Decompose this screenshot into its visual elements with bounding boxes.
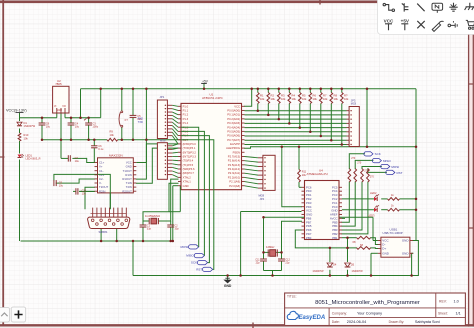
svg-text:270: 270 — [351, 157, 356, 160]
svg-text:P2.7(A15): P2.7(A15) — [228, 155, 240, 159]
svg-text:P2.2(A10): P2.2(A10) — [228, 175, 240, 179]
svg-text:GND: GND — [224, 284, 232, 288]
svg-text:EA/VPP: EA/VPP — [230, 142, 240, 146]
svg-text:10k: 10k — [302, 97, 307, 101]
svg-text:MISO: MISO — [186, 254, 194, 258]
svg-text:R2: R2 — [271, 94, 275, 98]
svg-text:P0.2(AD2): P0.2(AD2) — [227, 117, 240, 121]
svg-text:GND: GND — [183, 184, 189, 188]
svg-text:0.1u: 0.1u — [98, 147, 104, 151]
svg-text:LED3: LED3 — [368, 213, 375, 217]
svg-text:ALE/PROG: ALE/PROG — [226, 146, 240, 150]
svg-text:REV:: REV: — [439, 299, 447, 303]
svg-text:10k: 10k — [271, 97, 276, 101]
svg-text:P2.0(A8): P2.0(A8) — [229, 184, 240, 188]
svg-text:10u: 10u — [59, 185, 64, 188]
svg-text:XTAL1: XTAL1 — [183, 180, 192, 184]
svg-text:RST: RST — [397, 171, 403, 175]
svg-text:10k: 10k — [281, 97, 286, 101]
svg-text:P2.5(A13): P2.5(A13) — [228, 163, 240, 167]
svg-text:1N4007W: 1N4007W — [312, 270, 324, 273]
svg-text:D4: D4 — [333, 262, 337, 266]
svg-text:K?: K? — [125, 118, 129, 122]
svg-text:Sheet:: Sheet: — [438, 311, 448, 315]
svg-text:10k: 10k — [292, 97, 297, 101]
svg-text:MC8: MC8 — [351, 103, 357, 106]
svg-text:10k: 10k — [110, 133, 115, 137]
svg-text:VO: VO — [62, 105, 66, 108]
svg-text:10k: 10k — [334, 97, 339, 101]
svg-text:10u: 10u — [82, 193, 87, 196]
svg-text:270: 270 — [357, 162, 362, 165]
svg-text:10k: 10k — [260, 97, 265, 101]
svg-text:VI: VI — [54, 105, 57, 108]
svg-text:10k: 10k — [323, 97, 328, 101]
svg-text:270: 270 — [370, 176, 375, 179]
svg-text:(T0)P3.4: (T0)P3.4 — [183, 159, 194, 163]
svg-text:R2OUT: R2OUT — [122, 189, 132, 193]
svg-text:R?: R? — [344, 94, 348, 98]
svg-text:P1.0: P1.0 — [183, 104, 189, 108]
svg-text:SCK: SCK — [191, 261, 197, 265]
svg-text:TITLE:: TITLE: — [287, 294, 297, 298]
svg-text:33p: 33p — [147, 228, 152, 231]
svg-text:PSEN: PSEN — [233, 150, 240, 154]
svg-text:(INT0)P3.2: (INT0)P3.2 — [183, 150, 197, 154]
svg-text:(INT1)P3.3: (INT1)P3.3 — [183, 155, 197, 159]
svg-text:R3: R3 — [281, 94, 285, 98]
svg-text:P0.5(AD5): P0.5(AD5) — [227, 129, 240, 133]
svg-text:(WR)P3.6: (WR)P3.6 — [183, 167, 195, 171]
svg-text:SCK: SCK — [375, 152, 381, 156]
svg-text:R8: R8 — [334, 94, 338, 98]
svg-text:XTAL2: XTAL2 — [183, 175, 192, 179]
svg-text:2024-06-04: 2024-06-04 — [347, 320, 366, 324]
svg-text:(TXD)P3.1: (TXD)P3.1 — [183, 146, 196, 150]
svg-text:LED-0603_R: LED-0603_R — [26, 157, 41, 161]
svg-text:(RD)P3.7: (RD)P3.7 — [183, 171, 195, 175]
svg-text:TXD: TXD — [138, 121, 143, 124]
svg-text:P2.6(A14): P2.6(A14) — [228, 159, 240, 163]
svg-text:LED2: LED2 — [370, 191, 377, 195]
svg-text:Company:: Company: — [332, 311, 348, 315]
svg-text:GND: GND — [402, 239, 410, 243]
svg-text:VCC: VCC — [384, 18, 394, 23]
svg-text:PB0: PB0 — [306, 236, 312, 240]
svg-text:PB1: PB1 — [332, 236, 338, 240]
svg-text:10u: 10u — [75, 160, 80, 163]
svg-text:ATMEGA8A-PU: ATMEGA8A-PU — [307, 172, 328, 176]
svg-text:P1.1: P1.1 — [183, 109, 189, 113]
svg-text:P0.4(AD4): P0.4(AD4) — [227, 125, 240, 129]
svg-text:P1.2: P1.2 — [183, 113, 189, 117]
svg-text:P0.6(AD6): P0.6(AD6) — [227, 134, 240, 138]
svg-text:10u: 10u — [75, 125, 80, 129]
svg-text:10k: 10k — [24, 136, 29, 140]
svg-text:MISO: MISO — [383, 159, 391, 163]
svg-text:Your Company: Your Company — [357, 311, 382, 315]
svg-text:100u: 100u — [92, 125, 98, 129]
svg-text:JP4: JP4 — [260, 197, 265, 201]
svg-text:(T1)P3.5: (T1)P3.5 — [183, 163, 194, 167]
svg-text:8051_Microcontroller_with_Prog: 8051_Microcontroller_with_Programmer — [315, 300, 420, 306]
svg-text:P1.3: P1.3 — [183, 117, 189, 121]
svg-text:USB-TO-1360P: USB-TO-1360P — [383, 231, 403, 235]
svg-text:GND: GND — [402, 251, 410, 255]
svg-text:R7: R7 — [323, 94, 327, 98]
svg-text:1N4007W: 1N4007W — [352, 270, 364, 273]
svg-text:1.0: 1.0 — [454, 299, 459, 303]
svg-text:R2IN: R2IN — [99, 189, 105, 193]
svg-text:MG8: MG8 — [160, 140, 166, 143]
svg-text:P2.1(A9): P2.1(A9) — [229, 180, 240, 184]
svg-text:1N4007W: 1N4007W — [24, 124, 36, 128]
svg-text:22p: 22p — [285, 262, 290, 265]
svg-text:Drawn By:: Drawn By: — [389, 320, 405, 324]
svg-text:12MHz: 12MHz — [266, 245, 275, 249]
svg-text:VCC: VCC — [234, 104, 240, 108]
svg-text:270: 270 — [364, 170, 369, 173]
svg-text:+5V: +5V — [401, 18, 410, 23]
svg-text:P0.1(AD1): P0.1(AD1) — [227, 113, 240, 117]
svg-text:1/1: 1/1 — [456, 311, 461, 315]
svg-text:R5: R5 — [302, 94, 306, 98]
svg-text:10k: 10k — [313, 97, 318, 101]
svg-text:P0.7(AD7): P0.7(AD7) — [227, 138, 240, 142]
svg-text:Date:: Date: — [332, 320, 340, 324]
svg-text:P2.3(A11): P2.3(A11) — [228, 171, 240, 175]
svg-text:GND: GND — [382, 251, 390, 255]
svg-text:33p: 33p — [175, 228, 180, 231]
svg-text:EasyEDA: EasyEDA — [299, 315, 326, 321]
svg-text:MOSI: MOSI — [181, 245, 189, 249]
svg-text:MOSI: MOSI — [391, 165, 399, 169]
svg-text:P1.4: P1.4 — [183, 121, 189, 125]
svg-text:VCC(9-13V): VCC(9-13V) — [6, 108, 27, 112]
svg-text:P0.3(AD3): P0.3(AD3) — [227, 121, 240, 125]
svg-text:SDB9S: SDB9S — [99, 230, 108, 234]
svg-text:10u: 10u — [46, 125, 51, 129]
svg-text:R1: R1 — [260, 94, 264, 98]
svg-text:D5: D5 — [351, 262, 355, 266]
svg-text:D+: D+ — [382, 247, 386, 251]
svg-text:(RXD)P3.0: (RXD)P3.0 — [183, 142, 197, 146]
svg-text:R6: R6 — [313, 94, 317, 98]
svg-text:P2.4(A12): P2.4(A12) — [228, 167, 240, 171]
svg-text:MG8: MG8 — [259, 194, 265, 198]
svg-text:MAX232N: MAX232N — [109, 154, 123, 158]
svg-text:P0.0(AD0): P0.0(AD0) — [227, 109, 240, 113]
svg-text:Sabhyata Soni: Sabhyata Soni — [415, 320, 440, 324]
svg-text:RST: RST — [196, 268, 202, 272]
svg-text:22p: 22p — [256, 262, 261, 265]
svg-text:10k: 10k — [344, 97, 349, 101]
svg-text:JP1: JP1 — [160, 95, 165, 99]
svg-text:11.0592MHz: 11.0592MHz — [145, 214, 161, 218]
svg-text:R4: R4 — [292, 94, 296, 98]
svg-text:AT89C51 24PC: AT89C51 24PC — [202, 96, 224, 100]
svg-text:7805: 7805 — [55, 82, 62, 86]
